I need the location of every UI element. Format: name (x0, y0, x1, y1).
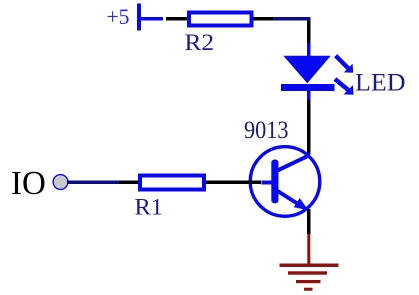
resistor R1 (140, 176, 204, 190)
transistor emitter line (277, 191, 298, 205)
wire: R2 to corner (black part) (254, 17, 274, 21)
wire: corner down black (307, 21, 311, 44)
ground bar 1 (280, 264, 339, 268)
wire: to LED anode blue (307, 43, 311, 57)
ground bar 4 (304, 288, 313, 291)
wire: LED cathode stub blue (307, 91, 311, 100)
wire: to ground maroon (307, 234, 310, 264)
transistor collector line (277, 155, 310, 171)
LED arrow 2 (335, 79, 350, 91)
ground bar 3 (296, 280, 321, 283)
wire: base blue segment (262, 181, 273, 185)
LED cathode bar (281, 84, 335, 91)
LED D1 triangle (283, 56, 331, 83)
svg-text:+5: +5 (107, 4, 130, 29)
svg-text:IO: IO (11, 165, 46, 202)
wire: R2 to corner (navy part) (273, 17, 311, 21)
svg-text:R1: R1 (135, 195, 164, 221)
transistor base bar (271, 160, 278, 204)
power bar VCC (137, 4, 141, 31)
resistor R2 (189, 13, 252, 26)
wire: stub to R2 (black) (166, 17, 187, 21)
wire: R1 to transistor base black (206, 181, 261, 185)
wire: emitter down black (307, 209, 311, 234)
svg-text:LED: LED (355, 68, 406, 97)
emitter arrowhead (294, 198, 309, 210)
LED arrow 1 (336, 56, 349, 69)
svg-text:9013: 9013 (244, 117, 289, 144)
wire: to R1 black (119, 181, 138, 185)
wire: terminal to R1 navy (67, 181, 119, 185)
wire: LED to collector black (307, 100, 311, 155)
ground bar 2 (288, 271, 327, 274)
svg-text:R2: R2 (185, 30, 215, 56)
wire: power bar stub (blue) (141, 17, 163, 21)
transistor Q1 circle (250, 147, 320, 217)
terminal node (gray circle) (53, 175, 68, 190)
